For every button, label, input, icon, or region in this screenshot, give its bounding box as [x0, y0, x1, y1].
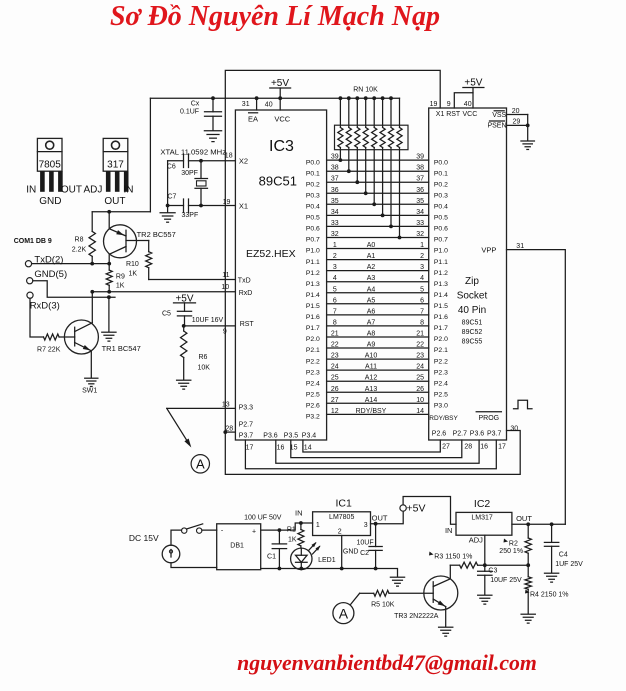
svg-text:P1.3: P1.3: [434, 281, 448, 288]
svg-text:VCC: VCC: [274, 115, 290, 124]
svg-text:P3.3: P3.3: [239, 404, 254, 411]
svg-text:X1: X1: [239, 201, 248, 210]
svg-text:X1: X1: [436, 111, 445, 118]
svg-text:6: 6: [333, 297, 337, 304]
svg-text:IN: IN: [124, 185, 134, 196]
svg-text:1: 1: [333, 242, 337, 249]
svg-text:A0: A0: [367, 242, 376, 249]
svg-text:1K: 1K: [288, 537, 297, 544]
svg-text:EZ52.HEX: EZ52.HEX: [246, 248, 296, 260]
svg-text:R10: R10: [126, 261, 139, 268]
svg-text:23: 23: [416, 353, 424, 360]
svg-text:P1.7: P1.7: [434, 325, 448, 332]
svg-text:3: 3: [333, 264, 337, 271]
svg-text:C3: C3: [488, 567, 497, 574]
svg-text:7: 7: [420, 308, 424, 315]
svg-text:8: 8: [420, 319, 424, 326]
svg-text:R8: R8: [75, 237, 84, 244]
svg-text:DB1: DB1: [230, 543, 244, 550]
svg-text:P1.6: P1.6: [306, 314, 320, 321]
svg-text:OUT: OUT: [372, 514, 388, 523]
svg-text:5: 5: [333, 286, 337, 293]
svg-text:31: 31: [242, 101, 250, 108]
svg-text:C4: C4: [559, 551, 568, 558]
svg-text:89C51: 89C51: [259, 174, 297, 189]
svg-text:3: 3: [420, 264, 424, 271]
svg-text:8: 8: [333, 319, 337, 326]
svg-text:R5 10K: R5 10K: [371, 601, 395, 608]
svg-text:LM317: LM317: [471, 515, 493, 522]
svg-text:100 UF 50V: 100 UF 50V: [244, 515, 282, 522]
svg-text:P0.0: P0.0: [434, 159, 448, 166]
svg-text:33PF: 33PF: [182, 212, 199, 219]
svg-text:R2: R2: [509, 540, 518, 547]
svg-text:A5: A5: [367, 297, 376, 304]
svg-text:EA: EA: [248, 115, 258, 124]
svg-text:40: 40: [464, 101, 472, 108]
svg-text:P0.5: P0.5: [434, 215, 448, 222]
svg-text:PSEN: PSEN: [487, 123, 506, 130]
svg-text:LM7805: LM7805: [329, 514, 354, 521]
svg-text:P0.1: P0.1: [306, 170, 320, 177]
svg-text:5: 5: [420, 286, 424, 293]
svg-text:89C55: 89C55: [462, 339, 483, 346]
svg-text:GND: GND: [343, 548, 359, 555]
svg-text:C5: C5: [162, 311, 171, 318]
svg-text:RxD: RxD: [239, 290, 253, 297]
svg-text:26: 26: [416, 386, 424, 393]
svg-text:A6: A6: [367, 308, 376, 315]
svg-text:P2.3: P2.3: [434, 369, 448, 376]
svg-text:Sơ Đồ Nguyên Lí Mạch Nạp: Sơ Đồ Nguyên Lí Mạch Nạp: [110, 1, 440, 32]
svg-text:P3.5: P3.5: [284, 433, 299, 440]
svg-text:27: 27: [442, 444, 450, 451]
svg-text:P0.2: P0.2: [434, 181, 448, 188]
svg-text:10: 10: [221, 284, 229, 291]
svg-text:16: 16: [480, 444, 488, 451]
svg-text:30: 30: [510, 426, 518, 433]
svg-text:DC 15V: DC 15V: [129, 533, 159, 543]
svg-text:P1.4: P1.4: [306, 292, 320, 299]
svg-text:R4 2150 1%: R4 2150 1%: [530, 591, 569, 598]
svg-text:P2.2: P2.2: [434, 358, 448, 365]
svg-text:Cx: Cx: [191, 101, 200, 108]
svg-text:P3.4: P3.4: [302, 433, 317, 440]
svg-text:4: 4: [420, 275, 424, 282]
svg-text:16: 16: [277, 445, 285, 452]
svg-text:P0.4: P0.4: [306, 204, 320, 211]
svg-text:4: 4: [333, 275, 337, 282]
svg-text:33: 33: [416, 220, 424, 227]
svg-text:IC3: IC3: [269, 138, 294, 155]
svg-text:36: 36: [331, 187, 339, 194]
svg-text:Zip: Zip: [465, 276, 479, 287]
svg-text:P1.0: P1.0: [306, 248, 320, 255]
svg-text:P2.5: P2.5: [306, 392, 320, 399]
svg-text:14: 14: [416, 408, 424, 415]
svg-text:27: 27: [331, 397, 339, 404]
svg-text:1: 1: [420, 242, 424, 249]
svg-text:19: 19: [430, 101, 438, 108]
svg-text:P2.0: P2.0: [434, 336, 448, 343]
svg-text:1K: 1K: [129, 271, 138, 278]
svg-text:P1.6: P1.6: [434, 314, 448, 321]
svg-text:21: 21: [331, 331, 339, 338]
svg-text:Socket: Socket: [457, 291, 488, 302]
svg-text:P2.2: P2.2: [306, 358, 320, 365]
svg-text:P0.3: P0.3: [306, 193, 320, 200]
svg-text:P2.7: P2.7: [239, 422, 254, 429]
svg-text:P2.4: P2.4: [306, 380, 320, 387]
svg-text:A8: A8: [367, 331, 376, 338]
svg-text:XTAL 11.0592 MHz: XTAL 11.0592 MHz: [160, 148, 226, 157]
svg-text:P3.6: P3.6: [470, 431, 485, 438]
svg-text:nguyenvanbientbd47@gmail.com: nguyenvanbientbd47@gmail.com: [237, 651, 537, 675]
svg-text:R7 22K: R7 22K: [37, 347, 61, 354]
svg-text:P2.7: P2.7: [453, 431, 468, 438]
svg-text:C6: C6: [167, 164, 176, 171]
svg-text:A4: A4: [367, 286, 376, 293]
svg-text:P2.5: P2.5: [434, 392, 448, 399]
svg-text:P3.7: P3.7: [487, 431, 502, 438]
svg-text:A: A: [339, 605, 349, 621]
svg-text:31: 31: [516, 243, 524, 250]
svg-text:P1.2: P1.2: [434, 270, 448, 277]
svg-text:VSS: VSS: [492, 112, 506, 119]
svg-text:37: 37: [331, 176, 339, 183]
svg-text:24: 24: [331, 364, 339, 371]
svg-text:R9: R9: [116, 273, 125, 280]
svg-text:RDY/BSY: RDY/BSY: [429, 415, 458, 422]
svg-text:SW1: SW1: [82, 388, 97, 395]
svg-text:OUT: OUT: [516, 514, 532, 523]
svg-text:+5V: +5V: [271, 78, 289, 89]
svg-text:OUT: OUT: [104, 196, 125, 207]
svg-text:3: 3: [364, 522, 368, 529]
svg-text:P0.3: P0.3: [434, 193, 448, 200]
svg-text:A2: A2: [367, 264, 376, 271]
svg-text:RST: RST: [240, 321, 255, 328]
svg-text:P1.5: P1.5: [306, 303, 320, 310]
svg-text:39: 39: [416, 154, 424, 161]
svg-text:37: 37: [416, 176, 424, 183]
svg-text:P0.1: P0.1: [434, 170, 448, 177]
svg-text:317: 317: [107, 160, 124, 171]
svg-text:38: 38: [331, 165, 339, 172]
svg-text:26: 26: [331, 386, 339, 393]
svg-text:P1.2: P1.2: [306, 270, 320, 277]
svg-text:36: 36: [416, 187, 424, 194]
svg-text:P1.5: P1.5: [434, 303, 448, 310]
svg-text:A: A: [196, 457, 205, 472]
svg-text:89C52: 89C52: [462, 329, 483, 336]
svg-text:A10: A10: [365, 353, 378, 360]
svg-text:10K: 10K: [198, 365, 211, 372]
svg-text:TxD: TxD: [238, 277, 251, 284]
svg-text:RDY/BSY: RDY/BSY: [356, 408, 387, 415]
svg-text:P1.0: P1.0: [434, 248, 448, 255]
svg-text:23: 23: [331, 353, 339, 360]
svg-text:20: 20: [512, 108, 520, 115]
svg-text:15: 15: [290, 445, 298, 452]
svg-text:14: 14: [304, 445, 312, 452]
svg-text:2: 2: [420, 253, 424, 260]
svg-text:P0.7: P0.7: [434, 237, 448, 244]
svg-text:P0.7: P0.7: [306, 237, 320, 244]
svg-text:32: 32: [331, 231, 339, 238]
svg-text:TR3 2N2222A: TR3 2N2222A: [394, 613, 439, 620]
svg-text:P1.1: P1.1: [434, 259, 448, 266]
svg-text:+: +: [252, 529, 256, 536]
svg-text:P2.4: P2.4: [434, 380, 448, 387]
svg-text:A3: A3: [367, 275, 376, 282]
svg-text:A13: A13: [365, 386, 378, 393]
svg-text:VPP: VPP: [481, 246, 496, 255]
svg-text:R3 1150 1%: R3 1150 1%: [434, 553, 472, 560]
svg-text:P3.6: P3.6: [263, 433, 278, 440]
svg-text:TxD(2): TxD(2): [34, 255, 63, 266]
svg-text:29: 29: [513, 119, 521, 126]
svg-text:1: 1: [316, 522, 320, 529]
svg-text:40 Pin: 40 Pin: [458, 305, 486, 316]
svg-text:IC1: IC1: [336, 498, 353, 510]
svg-text:11: 11: [222, 272, 229, 279]
svg-text:A14: A14: [365, 397, 378, 404]
svg-text:40: 40: [265, 102, 273, 109]
svg-text:10UF 16V: 10UF 16V: [192, 317, 224, 324]
svg-text:28: 28: [464, 444, 472, 451]
svg-text:10: 10: [416, 397, 424, 404]
svg-text:A12: A12: [365, 375, 378, 382]
svg-text:A11: A11: [365, 364, 377, 371]
svg-text:C7: C7: [168, 194, 177, 201]
svg-text:21: 21: [416, 331, 424, 338]
svg-text:35: 35: [416, 198, 424, 205]
svg-text:7: 7: [333, 308, 337, 315]
svg-text:P0.5: P0.5: [306, 215, 320, 222]
svg-text:35: 35: [331, 198, 339, 205]
svg-text:RN 10K: RN 10K: [353, 87, 378, 94]
svg-text:PROG: PROG: [478, 415, 499, 422]
svg-text:P2.6: P2.6: [432, 431, 447, 438]
svg-text:30PF: 30PF: [181, 170, 198, 177]
svg-text:GND: GND: [39, 196, 61, 207]
svg-text:RST: RST: [446, 111, 461, 118]
svg-text:32: 32: [416, 231, 424, 238]
svg-text:P1.3: P1.3: [306, 281, 320, 288]
svg-text:39: 39: [331, 154, 339, 161]
svg-text:P3.0: P3.0: [434, 403, 448, 410]
svg-text:9: 9: [223, 329, 227, 336]
svg-text:6: 6: [420, 297, 424, 304]
svg-text:P0.6: P0.6: [306, 226, 320, 233]
svg-text:P2.0: P2.0: [306, 336, 320, 343]
svg-text:0.1UF: 0.1UF: [180, 109, 199, 116]
svg-text:89C51: 89C51: [462, 320, 483, 327]
svg-text:COM1 DB 9: COM1 DB 9: [14, 238, 52, 245]
svg-text:P1.7: P1.7: [306, 325, 320, 332]
svg-text:R1: R1: [287, 527, 296, 534]
svg-text:12: 12: [331, 408, 339, 415]
svg-text:+5V: +5V: [464, 78, 482, 89]
svg-text:38: 38: [416, 165, 424, 172]
svg-text:TR1 BC547: TR1 BC547: [102, 344, 141, 353]
svg-text:LED1: LED1: [318, 557, 336, 564]
svg-text:1K: 1K: [116, 283, 125, 290]
svg-text:34: 34: [331, 209, 339, 216]
svg-text:ADJ: ADJ: [469, 536, 483, 545]
svg-text:TR2 BC557: TR2 BC557: [137, 230, 176, 239]
svg-text:GND(5): GND(5): [34, 269, 67, 280]
svg-text:+5V: +5V: [407, 503, 426, 515]
svg-text:24: 24: [416, 364, 424, 371]
svg-text:P0.0: P0.0: [306, 159, 320, 166]
svg-text:P3.2: P3.2: [306, 414, 320, 421]
svg-text:P1.1: P1.1: [306, 259, 320, 266]
svg-text:25: 25: [416, 375, 424, 382]
svg-text:P2.3: P2.3: [306, 369, 320, 376]
svg-text:OUT: OUT: [61, 185, 82, 196]
svg-text:P2.1: P2.1: [306, 347, 320, 354]
svg-text:2: 2: [333, 253, 337, 260]
svg-text:1UF 25V: 1UF 25V: [555, 561, 583, 568]
svg-text:P0.2: P0.2: [306, 181, 320, 188]
svg-text:IN: IN: [295, 509, 303, 518]
svg-text:VCC: VCC: [463, 111, 478, 118]
svg-text:18: 18: [225, 153, 233, 160]
svg-text:P3.7: P3.7: [239, 433, 254, 440]
svg-text:IN: IN: [445, 526, 453, 535]
svg-text:P2.6: P2.6: [306, 403, 320, 410]
svg-text:IN: IN: [26, 185, 36, 196]
svg-text:10UF 25V: 10UF 25V: [490, 577, 522, 584]
svg-text:33: 33: [331, 220, 339, 227]
svg-text:A9: A9: [367, 342, 376, 349]
svg-text:28: 28: [225, 426, 233, 433]
svg-text:IC2: IC2: [474, 498, 491, 510]
svg-text:+5V: +5V: [175, 294, 193, 305]
svg-text:17: 17: [246, 445, 254, 452]
svg-text:25: 25: [331, 375, 339, 382]
svg-text:R6: R6: [199, 354, 208, 361]
svg-text:2: 2: [338, 529, 342, 536]
svg-text:9: 9: [447, 101, 451, 108]
svg-text:C2: C2: [360, 550, 369, 557]
svg-text:34: 34: [416, 209, 424, 216]
svg-text:22: 22: [416, 342, 424, 349]
svg-text:2.2K: 2.2K: [72, 247, 87, 254]
svg-text:X2: X2: [239, 156, 248, 165]
svg-text:P1.4: P1.4: [434, 292, 448, 299]
svg-text:250 1%: 250 1%: [499, 548, 523, 555]
svg-text:C1: C1: [267, 554, 276, 561]
svg-text:P0.6: P0.6: [434, 226, 448, 233]
svg-text:A1: A1: [367, 253, 376, 260]
svg-text:13: 13: [222, 402, 230, 409]
svg-text:22: 22: [331, 342, 339, 349]
svg-text:19: 19: [223, 199, 231, 206]
svg-text:17: 17: [498, 444, 506, 451]
svg-text:ADJ: ADJ: [84, 185, 103, 196]
svg-text:P2.1: P2.1: [434, 347, 448, 354]
svg-text:P0.4: P0.4: [434, 204, 448, 211]
svg-text:RxD(3): RxD(3): [30, 301, 60, 312]
svg-text:10UF: 10UF: [357, 539, 374, 546]
svg-text:7805: 7805: [39, 160, 62, 171]
svg-text:A7: A7: [367, 319, 376, 326]
